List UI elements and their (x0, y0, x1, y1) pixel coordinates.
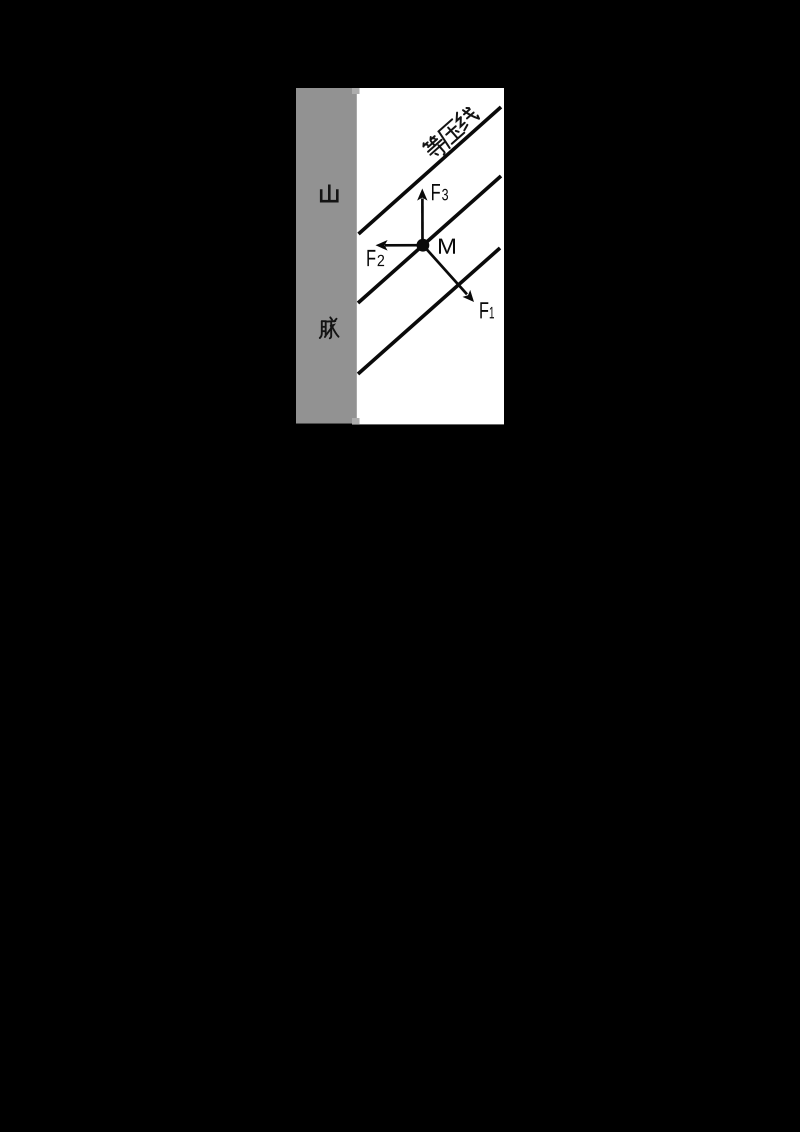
hanzi 等 (422, 133, 450, 162)
arrow F3 shaft (421, 199, 424, 246)
arrow F2 head (376, 240, 388, 251)
hanzi 脉 (range) (320, 317, 339, 338)
label M (439, 239, 455, 254)
arrow F3 head (417, 189, 427, 201)
light notch bottom (352, 418, 360, 424)
isobar line bottom (358, 248, 500, 374)
arrow F1 head (463, 290, 475, 302)
isobar line middle (358, 176, 501, 303)
hanzi 线 (452, 104, 480, 132)
light notch top (352, 88, 360, 94)
figure white background (right part, slightly lower bottom) (352, 88, 504, 424)
figure white background (left part, ends at bar bottom) (296, 88, 504, 423)
point M dot (417, 239, 430, 252)
hanzi 山 (mountain) (321, 186, 337, 201)
rotated label 等压线 (isobar) (421, 104, 482, 162)
isobar line top (359, 107, 502, 234)
moon radical (322, 321, 326, 337)
arrow F1 shaft (423, 245, 467, 294)
right part (yong) (330, 317, 332, 319)
label F2 (367, 250, 375, 266)
label F1 (480, 302, 488, 318)
label F3 (432, 184, 440, 200)
mountain gray bar (296, 88, 357, 423)
hanzi 压 (437, 119, 466, 148)
arrow F2 shaft (385, 244, 423, 247)
